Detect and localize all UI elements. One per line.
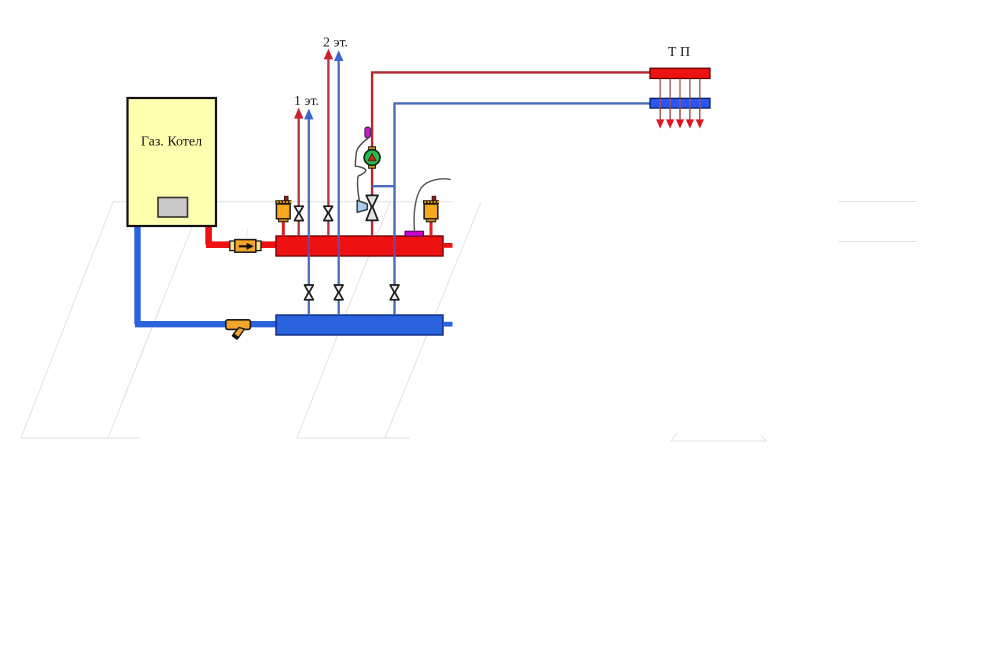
boiler display panel	[158, 198, 188, 218]
faint guide line right top	[838, 201, 917, 203]
circulation pump	[364, 147, 380, 168]
riser crossing tint 2	[338, 237, 340, 255]
pump head sensor pill	[365, 127, 371, 138]
underfloor blue bar	[650, 98, 710, 108]
riser red 1st floor	[298, 116, 300, 236]
arrowhead blue 1st floor	[304, 109, 313, 120]
riser red 2nd floor	[327, 57, 329, 236]
arrowhead red 1st floor	[294, 108, 303, 119]
valve on blue riser 1	[305, 285, 314, 300]
faint guide line horizontal	[113, 201, 452, 203]
arrowhead red 2nd floor	[324, 49, 333, 60]
three-way mixing valve	[366, 195, 378, 220]
valve on red riser 2	[324, 206, 333, 220]
valve on blue riser 2	[334, 285, 343, 300]
faint parallelogram middle	[297, 202, 481, 438]
underfloor blue return riser	[395, 103, 651, 315]
wire from boiler red pipe (faint)	[246, 228, 248, 240]
underfloor red feed line	[372, 72, 650, 236]
gas boiler body	[128, 98, 217, 226]
faint bottom right segment	[671, 433, 766, 441]
valve actuator	[357, 200, 367, 212]
blue return pipe from boiler	[135, 224, 278, 324]
faint parallelogram left pink edge	[121, 300, 163, 405]
underfloor red bar	[650, 68, 710, 78]
svg-text:Т П: Т П	[668, 45, 690, 60]
riser blue 1st floor	[308, 117, 310, 315]
control wire from pill to valve actuator	[355, 138, 368, 200]
red supply pipe from boiler	[206, 224, 278, 245]
capillary wire to sensor strip	[414, 179, 451, 232]
air vent right	[423, 196, 439, 222]
riser crossing tint 1	[308, 237, 310, 255]
faint guide line right lower	[838, 241, 917, 243]
arrowhead blue 2nd floor	[334, 50, 343, 61]
underfloor loop lines	[660, 79, 700, 121]
blue return manifold	[276, 315, 443, 335]
drain filter on return pipe	[226, 320, 251, 340]
svg-text:1 эт.: 1 эт.	[294, 94, 319, 109]
underfloor loop arrowheads	[656, 119, 704, 128]
valve on red riser 1	[295, 206, 304, 220]
air vent right pipe	[430, 221, 433, 236]
svg-text:2 эт.: 2 эт.	[323, 36, 348, 51]
riser blue 2nd floor	[338, 59, 340, 316]
thermostat sensor strip on manifold	[405, 231, 424, 236]
riser crossing tint 3	[393, 237, 395, 255]
svg-text:Газ. Котел: Газ. Котел	[141, 135, 202, 150]
blue manifold right stub	[443, 322, 453, 327]
check valve on supply	[230, 240, 261, 253]
valve on underfloor return riser	[390, 285, 399, 300]
bypass blue link	[372, 185, 396, 187]
red manifold right stub	[443, 243, 453, 248]
air vent left pipe	[282, 221, 285, 236]
air vent left	[275, 196, 291, 222]
faint parallelogram left	[21, 202, 202, 438]
red supply manifold	[276, 236, 443, 256]
underfloor loop lines over blue bar	[660, 98, 700, 120]
